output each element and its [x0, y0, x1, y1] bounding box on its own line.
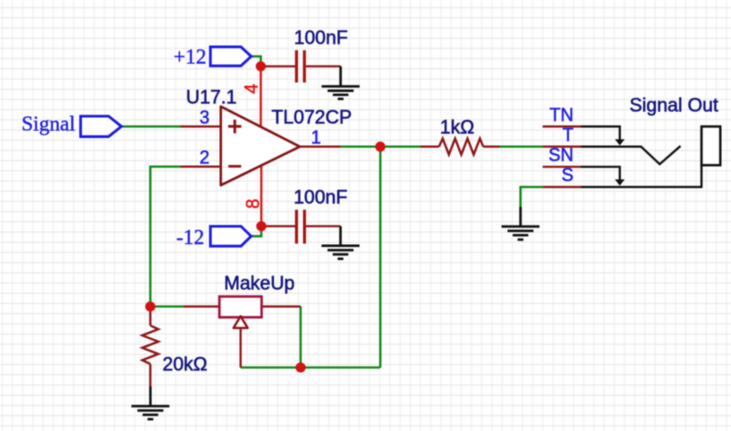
svg-text:S: S: [561, 165, 573, 185]
port Signal: [81, 116, 122, 136]
wire: 1k resistor to jack tip T: [500, 145, 543, 147]
svg-text:Signal: Signal: [22, 112, 76, 136]
wire: node B to C1 (dark red): [261, 65, 295, 67]
wire: jack sleeve S to ground: [521, 187, 543, 208]
svg-text:-12: -12: [176, 225, 204, 249]
wire: op-amp output to 1k resistor: [341, 145, 421, 147]
wire: +12 port to node B: [251, 56, 261, 66]
op-amp U17.1 triangle: [221, 107, 300, 186]
junction node E (bottom): [296, 362, 306, 372]
svg-text:100nF: 100nF: [294, 28, 348, 49]
potentiometer MakeUp left lead: [183, 305, 219, 307]
op-amp plus input marker: [228, 120, 241, 134]
power pin 4 (red vertical): [260, 66, 262, 126]
ground G1 (top, after C1): [322, 66, 360, 99]
jack body rectangle: [702, 127, 721, 166]
svg-text:T: T: [563, 125, 574, 145]
junction node C (-12): [256, 221, 266, 231]
svg-text:3: 3: [199, 108, 209, 128]
svg-text:+12: +12: [174, 45, 207, 69]
svg-text:20kΩ: 20kΩ: [163, 354, 208, 375]
jack TN switch wire with arrow: [581, 127, 620, 140]
op-amp minus input marker: [228, 165, 241, 168]
port +12: [210, 47, 251, 66]
svg-text:MakeUp: MakeUp: [224, 274, 295, 295]
ground G4 (below 20k resistor): [131, 386, 169, 419]
wire: feedback vertical from node D down: [379, 147, 381, 368]
wire: node C to C2 (dark red): [261, 225, 295, 227]
resistor R2 20kΩ: [142, 307, 158, 387]
jack SN switch wire with arrow: [581, 167, 620, 180]
ground G2 (bottom, after C2): [322, 226, 360, 259]
potentiometer MakeUp wiper arrow: [234, 316, 248, 328]
junction node B (+12): [256, 61, 266, 71]
svg-text:TL072CP: TL072CP: [272, 108, 352, 129]
wire: pot right terminal down to node E: [299, 307, 301, 368]
jack sleeve S wire: [581, 165, 702, 187]
junction node D (output): [375, 142, 385, 152]
svg-text:1: 1: [311, 128, 321, 148]
svg-text:SN: SN: [548, 145, 573, 165]
jack tip T contact (V spring): [581, 146, 681, 164]
wire: C2 to ground stem (dark red): [306, 225, 341, 227]
resistor R1 1kΩ: [421, 139, 500, 155]
wire: -12 port to node C: [251, 226, 261, 236]
pin 2 lead: [181, 166, 221, 168]
wire: C1 to ground stem (dark red): [306, 65, 341, 67]
svg-text:100nF: 100nF: [294, 188, 348, 209]
jack pin TN lead: [543, 125, 581, 127]
svg-text:1kΩ: 1kΩ: [440, 117, 474, 138]
port -12: [210, 226, 251, 246]
pin 3 lead: [181, 125, 221, 127]
svg-text:2: 2: [199, 148, 209, 168]
jack pin S lead: [543, 186, 581, 188]
wire: feedback net from pin 2 down to node A: [150, 167, 180, 307]
junction node A (feedback/20k): [145, 301, 155, 311]
potentiometer MakeUp wiper stem: [240, 328, 242, 368]
potentiometer MakeUp body: [219, 297, 261, 318]
ground G3 (jack sleeve): [502, 207, 540, 240]
svg-text:4: 4: [242, 84, 262, 94]
capacitor C2 plates (100nF bottom): [297, 210, 305, 244]
svg-text:Signal Out: Signal Out: [630, 96, 719, 117]
jack pin SN lead: [543, 166, 581, 168]
capacitor C1 plates (100nF top): [297, 50, 305, 82]
svg-text:U17.1: U17.1: [186, 88, 237, 109]
pin 1 lead: [300, 146, 341, 148]
wire: node A to MakeUp pot left: [150, 305, 183, 307]
wire: bottom horizontal from pot wiper through node E: [241, 366, 381, 368]
svg-text:TN: TN: [550, 105, 574, 125]
jack pin T lead: [543, 146, 581, 148]
wire: Signal port to pin 3: [121, 125, 180, 127]
svg-text:8: 8: [243, 199, 263, 209]
potentiometer MakeUp right lead: [262, 305, 301, 307]
power pin 8 (red vertical): [260, 166, 262, 226]
